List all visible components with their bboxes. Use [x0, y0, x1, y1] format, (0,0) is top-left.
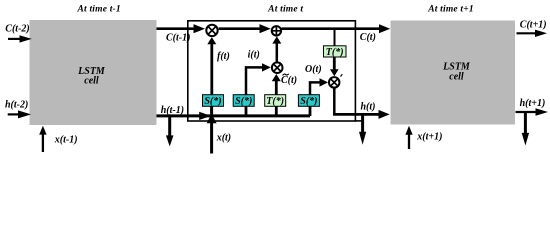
label x(t) — [216, 133, 231, 144]
label C(t) — [360, 32, 376, 43]
label i(t) — [248, 49, 260, 60]
wire C(t+1) output arrow — [517, 30, 548, 37]
label x(t-1) — [54, 134, 78, 145]
label C(t-2) — [5, 23, 29, 34]
svg-text:S(*): S(*) — [235, 96, 252, 107]
box S(*) input — [233, 95, 254, 108]
label x(t+1) — [416, 132, 442, 143]
label C~(t) — [281, 74, 297, 86]
wire stub tanh3 to bus — [275, 106, 278, 116]
svg-text:h(t-1): h(t-1) — [161, 105, 184, 116]
svg-text:O(t): O(t) — [305, 64, 322, 75]
wire C(t) out of cell to next block — [282, 24, 391, 33]
svg-text:At time t+1: At time t+1 — [427, 5, 474, 15]
svg-text:T(*): T(*) — [266, 96, 284, 107]
svg-text:C(t-2): C(t-2) — [5, 23, 29, 34]
box T(*) candidate — [265, 95, 286, 108]
gate add — [272, 26, 281, 35]
wire h(t-2) input arrow — [8, 110, 31, 118]
wire stub sigmoid4 to bus — [309, 106, 312, 116]
wire stub sigmoid2 to bus — [245, 106, 248, 116]
svg-text:h(t-2): h(t-2) — [5, 100, 28, 111]
wire x(t) input — [207, 106, 217, 153]
label h(t-1) — [161, 105, 184, 116]
svg-text:C(t-1): C(t-1) — [166, 33, 190, 44]
svg-text:cell: cell — [449, 72, 464, 83]
svg-text:S(*): S(*) — [300, 96, 317, 107]
label LSTM cell t-1 — [77, 66, 106, 87]
label O(t) — [305, 64, 322, 75]
LSTM cell boundary box t — [188, 21, 363, 121]
label h(t+1) — [520, 98, 546, 109]
wire output gate down to h line — [333, 88, 336, 116]
wire branch down to output tanh — [334, 28, 336, 46]
LSTM cell block t+1 — [391, 21, 516, 125]
wire C(t-2) input arrow — [8, 35, 32, 42]
wire input gate up to add gate — [272, 36, 281, 61]
stray tick near output gate — [341, 74, 343, 76]
title At time t-1 — [77, 5, 121, 15]
label C(t-1) — [166, 33, 190, 44]
title At time t+1 — [427, 5, 474, 15]
wire h(t+1) branch down — [522, 112, 529, 146]
svg-text:h(t): h(t) — [361, 102, 376, 113]
title At time t — [267, 5, 303, 15]
gate multiply forget — [206, 25, 217, 36]
svg-text:C(t+1): C(t+1) — [520, 20, 547, 31]
svg-text:cell: cell — [84, 76, 99, 87]
label LSTM cell t+1 — [442, 62, 471, 83]
svg-text:h(t+1): h(t+1) — [520, 98, 546, 109]
svg-text:At time t: At time t — [267, 5, 303, 15]
svg-text:C(t): C(t) — [281, 75, 297, 86]
wire C(t-1) into forget gate — [157, 24, 206, 33]
box S(*) forget — [203, 95, 224, 108]
svg-text:T(*): T(*) — [326, 47, 344, 58]
svg-text:At time t-1: At time t-1 — [77, 5, 121, 15]
label f(t) — [217, 51, 230, 62]
wire h(t+1) output arrow — [516, 108, 549, 116]
svg-text:S(*): S(*) — [204, 96, 221, 107]
svg-text:x(t+1): x(t+1) — [416, 132, 442, 143]
box S(*) output — [298, 95, 319, 108]
svg-text:x(t-1): x(t-1) — [54, 134, 78, 145]
wire h(t) out of cell — [333, 110, 390, 119]
svg-text:x(t): x(t) — [216, 133, 231, 144]
wire h(t-1) bus — [157, 112, 311, 120]
LSTM cell block t-1 — [30, 20, 157, 125]
wire h(t) branch down — [359, 113, 366, 145]
wire sigmoid4 to output gate — [310, 78, 328, 95]
label h(t-2) — [5, 100, 28, 111]
svg-text:f(t): f(t) — [217, 51, 230, 62]
wire x(t-1) input arrow — [39, 126, 46, 152]
svg-text:C(t): C(t) — [360, 32, 376, 43]
wire forget gate to add gate — [219, 24, 271, 33]
svg-text:i(t): i(t) — [248, 49, 260, 60]
gate multiply input — [272, 62, 283, 73]
wire h(t-1) branch down — [166, 117, 174, 146]
gate multiply output — [329, 77, 340, 88]
wire sigmoid2 to input gate — [246, 63, 271, 94]
label h(t) — [361, 102, 376, 113]
wire tanh3 to input gate — [272, 74, 281, 95]
wire sigmoid1 to forget gate — [207, 37, 216, 95]
box T(*) output — [324, 46, 347, 58]
wire x(t+1) input arrow — [405, 126, 412, 149]
wire T(*) to output gate — [330, 57, 339, 76]
label C(t+1) — [520, 20, 547, 31]
